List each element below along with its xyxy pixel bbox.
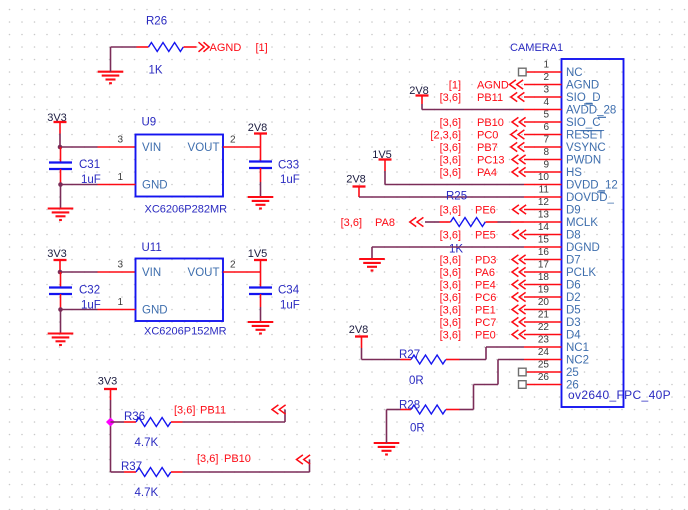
port PC6 pin19 (440, 292, 526, 304)
svg-text:1: 1 (117, 297, 123, 308)
wire (460, 360, 525, 410)
svg-text:AGND: AGND (566, 80, 599, 92)
svg-text:2V8: 2V8 (349, 324, 369, 336)
wire (110, 400, 112, 472)
wire (60, 271, 98, 273)
node junction (58, 270, 63, 275)
svg-text:3: 3 (117, 260, 123, 271)
pin 9 HS (524, 160, 582, 179)
pin 3 U9 (98, 135, 136, 148)
svg-text:D8: D8 (566, 230, 581, 242)
port AGND pin2 (449, 80, 523, 92)
label U9 designator (142, 117, 157, 129)
port PC0 pin6 (430, 130, 524, 142)
wire (460, 347, 525, 360)
resistor R36 (124, 418, 183, 427)
label R26 value 1K (149, 65, 163, 77)
svg-text:11: 11 (539, 185, 550, 196)
svg-text:PC0: PC0 (477, 130, 498, 142)
svg-text:PD3: PD3 (475, 255, 496, 267)
svg-text:[3,6]: [3,6] (197, 453, 218, 465)
svg-text:24: 24 (538, 347, 550, 358)
pin 22 D4 (524, 322, 581, 341)
label C32 value 1uF (81, 300, 101, 312)
port PB11 (174, 405, 286, 417)
pin 23 NC1 (524, 335, 589, 354)
svg-text:1V5: 1V5 (248, 248, 268, 260)
port PC7 pin21 (440, 317, 526, 329)
svg-text:17: 17 (538, 260, 550, 271)
svg-text:U9: U9 (142, 117, 157, 129)
svg-text:[3,6]: [3,6] (440, 155, 461, 167)
port PE1 pin20 (440, 305, 526, 317)
svg-text:[3,6]: [3,6] (440, 267, 461, 279)
op-amp U11 body (136, 259, 224, 322)
svg-text:12: 12 (538, 197, 550, 208)
svg-text:R26: R26 (146, 16, 167, 28)
pin 1 U9 (98, 172, 136, 185)
port AGND (199, 42, 268, 54)
svg-text:R27: R27 (399, 349, 420, 361)
wire (183, 410, 286, 423)
svg-text:PB10: PB10 (477, 117, 504, 129)
label C31 designator (79, 159, 100, 171)
svg-text:PA8: PA8 (375, 217, 395, 229)
pin 19 D2 (524, 285, 581, 304)
pin 12 D9 (524, 197, 581, 216)
wire (385, 171, 524, 185)
port PA4 pin9 (440, 167, 526, 179)
capacitor C32 (49, 272, 72, 310)
svg-text:C33: C33 (278, 160, 299, 172)
svg-text:VIN: VIN (142, 267, 161, 279)
svg-text:R25: R25 (446, 191, 467, 203)
pin 2 U9 (223, 135, 261, 148)
port PE4 pin18 (440, 280, 526, 292)
svg-text:10: 10 (538, 172, 550, 183)
svg-text:PC7: PC7 (475, 317, 496, 329)
power port 3V3 (47, 112, 67, 134)
resistor R27 (401, 355, 460, 364)
svg-text:PB11: PB11 (200, 405, 226, 417)
svg-text:19: 19 (538, 285, 550, 296)
svg-text:PWDN: PWDN (566, 155, 601, 167)
pin 3 U11 (98, 260, 136, 273)
wire (59, 134, 61, 148)
wire (362, 348, 401, 360)
svg-text:D2: D2 (566, 292, 581, 304)
pin 24 NC2 (524, 347, 589, 366)
svg-text:NC: NC (566, 67, 583, 79)
wire (422, 104, 524, 110)
no-connect square pin 25 (519, 368, 527, 376)
pin 1 NC (524, 60, 583, 79)
label R25 designator (446, 191, 467, 203)
pin 18 D6 (524, 272, 581, 291)
pin 5 SIO_C (524, 110, 601, 129)
svg-text:[3,6]: [3,6] (440, 292, 461, 304)
svg-text:26: 26 (566, 380, 579, 392)
label part ov2640_FPC_40P (568, 388, 671, 402)
node junction (58, 182, 63, 187)
svg-text:4.7K: 4.7K (135, 437, 159, 449)
ground (248, 322, 274, 334)
connector CAMERA1 body (562, 59, 624, 407)
ground (48, 334, 74, 346)
svg-text:[3,6]: [3,6] (440, 205, 461, 217)
wire (111, 421, 125, 423)
wire (372, 247, 524, 259)
label CAMERA1 designator (510, 42, 563, 54)
svg-text:3: 3 (543, 85, 549, 96)
svg-text:14: 14 (538, 222, 550, 233)
pin 20 D5 (524, 297, 581, 316)
svg-text:C31: C31 (79, 159, 100, 171)
svg-text:HS: HS (566, 167, 582, 179)
svg-text:XC6206P282MR: XC6206P282MR (145, 204, 228, 216)
svg-text:PA4: PA4 (477, 167, 497, 179)
svg-text:D6: D6 (566, 280, 581, 292)
svg-text:R37: R37 (121, 461, 142, 473)
svg-text:ov2640_FPC_40P: ov2640_FPC_40P (568, 388, 671, 402)
svg-text:DGND: DGND (566, 242, 600, 254)
svg-text:VOUT: VOUT (188, 142, 220, 154)
no-connect square pin 1 (519, 68, 527, 76)
wire (111, 47, 137, 72)
wire (183, 460, 310, 473)
svg-text:9: 9 (543, 160, 549, 171)
wire (61, 309, 98, 311)
ground (248, 197, 274, 209)
svg-text:XC6206P152MR: XC6206P152MR (144, 326, 227, 338)
ground (359, 259, 385, 271)
pin 17 PCLK (524, 260, 596, 279)
svg-text:1K: 1K (149, 65, 163, 77)
svg-text:[3,6]: [3,6] (440, 117, 461, 129)
svg-text:3V3: 3V3 (47, 248, 67, 260)
svg-text:R36: R36 (124, 411, 145, 423)
node junction (manual) (106, 417, 115, 426)
pin 6 RESET (524, 122, 604, 141)
ground (98, 72, 124, 84)
svg-text:2: 2 (543, 72, 549, 83)
svg-text:VIN: VIN (142, 142, 161, 154)
svg-text:15: 15 (538, 235, 550, 246)
node junction (58, 145, 63, 150)
svg-text:PE6: PE6 (475, 205, 496, 217)
svg-text:AGND: AGND (210, 42, 242, 54)
port PB7 pin7 (440, 142, 525, 154)
pin name overbar AVDD (584, 103, 593, 105)
svg-text:1uF: 1uF (280, 174, 300, 186)
pin name GND (142, 305, 168, 317)
svg-text:GND: GND (142, 305, 168, 317)
pin 1 U11 (98, 297, 136, 310)
wire (498, 221, 525, 223)
pin 2 AGND (524, 72, 599, 91)
pin 3 SIO_D (524, 85, 601, 104)
label C33 value 1uF (280, 174, 300, 186)
svg-text:2V8: 2V8 (248, 122, 268, 134)
svg-text:SIO_C: SIO_C (566, 117, 601, 129)
pin 4 AVDD_28 (524, 97, 616, 116)
svg-text:C32: C32 (79, 285, 100, 297)
svg-text:[2,3,6]: [2,3,6] (430, 130, 461, 142)
svg-text:1: 1 (543, 60, 549, 71)
pin 7 VSYNC (524, 135, 606, 154)
port PB11 pin3 (440, 92, 525, 104)
svg-text:R28: R28 (399, 400, 420, 412)
svg-text:2V8: 2V8 (346, 174, 366, 186)
label U9 part XC6206P282MR (145, 204, 228, 216)
pin 8 PWDN (524, 147, 601, 166)
svg-text:PE0: PE0 (475, 330, 496, 342)
power port 3V3 (98, 376, 118, 401)
port PC13 pin8 (440, 155, 526, 167)
svg-text:PA6: PA6 (475, 267, 495, 279)
label C32 designator (79, 285, 100, 297)
svg-text:D5: D5 (566, 305, 581, 317)
power port 3V3 (47, 248, 67, 272)
wire (60, 185, 62, 209)
pin 2 U11 (223, 260, 261, 273)
label R27 designator (399, 349, 420, 361)
wire (425, 221, 440, 223)
svg-text:2: 2 (230, 260, 236, 271)
wire (61, 184, 98, 186)
capacitor C33 (249, 147, 272, 182)
pin name VOUT (188, 142, 220, 154)
svg-text:PE5: PE5 (475, 230, 496, 242)
ground (374, 443, 400, 455)
label R36 designator (124, 411, 145, 423)
svg-text:21: 21 (538, 310, 550, 321)
svg-text:[3,6]: [3,6] (440, 255, 461, 267)
svg-text:PB10: PB10 (224, 453, 251, 465)
svg-text:5: 5 (543, 110, 549, 121)
no-connect square pin 26 (519, 381, 527, 389)
svg-text:18: 18 (538, 272, 550, 283)
svg-text:[1]: [1] (256, 42, 268, 54)
svg-text:D4: D4 (566, 330, 581, 342)
pin 26 26 (524, 372, 579, 391)
svg-text:[3,6]: [3,6] (440, 92, 461, 104)
svg-text:13: 13 (538, 210, 550, 221)
svg-text:D7: D7 (566, 255, 581, 267)
capacitor C34 (249, 272, 272, 307)
svg-text:[3,6]: [3,6] (440, 305, 461, 317)
svg-text:25: 25 (566, 367, 579, 379)
pin 14 D8 (524, 222, 581, 241)
label R36 value 4.7K (135, 437, 159, 449)
pin name VOUT (188, 267, 220, 279)
port PD3 pin16 (440, 255, 526, 267)
pin name overbar DOVDD (597, 191, 605, 193)
svg-text:PC6: PC6 (475, 292, 496, 304)
label R25 value 1K (449, 244, 463, 256)
svg-text:[3,6]: [3,6] (440, 330, 461, 342)
svg-text:NC1: NC1 (566, 342, 589, 354)
svg-text:22: 22 (538, 322, 550, 333)
wire (359, 196, 524, 198)
label C34 value 1uF (280, 300, 300, 312)
svg-text:VOUT: VOUT (188, 267, 220, 279)
svg-text:[3,6]: [3,6] (440, 142, 461, 154)
svg-text:DOVDD_: DOVDD_ (566, 192, 615, 204)
svg-text:[3,6]: [3,6] (174, 405, 195, 417)
op-amp U9 body (136, 135, 224, 197)
svg-text:U11: U11 (142, 242, 162, 254)
svg-text:2: 2 (230, 135, 236, 146)
label U11 designator (142, 242, 162, 254)
svg-text:D3: D3 (566, 317, 581, 329)
svg-text:PCLK: PCLK (566, 267, 596, 279)
pin name VIN (142, 267, 161, 279)
svg-text:26: 26 (538, 372, 550, 383)
svg-text:4: 4 (543, 97, 549, 108)
resistor R37 (111, 468, 183, 477)
wire (60, 146, 98, 148)
node junction (58, 307, 63, 312)
label U11 part XC6206P152MR (144, 326, 227, 338)
pin 16 D7 (524, 247, 581, 266)
pin name overbar SIO_C (598, 116, 606, 118)
svg-text:D9: D9 (566, 205, 581, 217)
svg-text:C34: C34 (278, 285, 300, 297)
power port 1V5 (372, 149, 392, 171)
svg-text:PE1: PE1 (475, 305, 496, 317)
pin name VIN (142, 142, 161, 154)
svg-text:3V3: 3V3 (98, 376, 118, 388)
svg-text:[3,6]: [3,6] (341, 217, 362, 229)
svg-text:[3,6]: [3,6] (440, 230, 461, 242)
wire (387, 410, 401, 444)
port PA6 pin17 (440, 267, 526, 279)
svg-text:20: 20 (538, 297, 550, 308)
pin 15 DGND (524, 235, 600, 254)
pin name overbar RESET (581, 130, 603, 132)
svg-text:PB7: PB7 (477, 142, 498, 154)
svg-text:0R: 0R (409, 375, 424, 387)
svg-text:AVDD_28: AVDD_28 (566, 105, 616, 117)
svg-text:8: 8 (543, 147, 549, 158)
svg-text:DVDD_12: DVDD_12 (566, 180, 618, 192)
pin 13 MCLK (524, 210, 598, 229)
svg-text:SIO_D: SIO_D (566, 92, 601, 104)
capacitor C31 (49, 147, 72, 185)
svg-text:[3,6]: [3,6] (440, 317, 461, 329)
port PE6 pin12 (440, 205, 527, 217)
svg-text:6: 6 (543, 122, 549, 133)
pin 21 D3 (524, 310, 581, 329)
ground (48, 209, 74, 221)
resistor R1 (R26) (137, 43, 197, 52)
svg-text:[3,6]: [3,6] (440, 167, 461, 179)
svg-text:16: 16 (538, 247, 550, 258)
svg-text:23: 23 (538, 335, 550, 346)
pin 11 DOVDD_ (524, 185, 615, 204)
svg-text:0R: 0R (410, 423, 425, 435)
label R27 value 0R (409, 375, 424, 387)
svg-text:1uF: 1uF (280, 300, 300, 312)
pin 25 25 (524, 360, 579, 379)
resistor R28 (401, 405, 460, 414)
svg-text:AGND: AGND (477, 80, 509, 92)
wire (60, 310, 62, 334)
svg-text:CAMERA1: CAMERA1 (510, 42, 563, 54)
svg-text:1K: 1K (449, 244, 463, 256)
svg-text:[3,6]: [3,6] (440, 280, 461, 292)
svg-text:NC2: NC2 (566, 355, 589, 367)
svg-text:GND: GND (142, 180, 168, 192)
svg-text:25: 25 (538, 360, 550, 371)
wire (260, 182, 262, 197)
svg-text:PB11: PB11 (477, 92, 503, 104)
label R37 value 4.7K (135, 487, 159, 499)
svg-text:7: 7 (543, 135, 549, 146)
label R28 designator (399, 400, 420, 412)
power port 2V8 (349, 324, 369, 348)
power port 2V8 (248, 122, 268, 147)
wire (260, 307, 262, 322)
label R26 designator (146, 16, 167, 28)
label R37 designator (121, 461, 142, 473)
svg-text:[1]: [1] (449, 80, 461, 92)
port PA8 (341, 217, 424, 229)
port PB10 pin5 (440, 117, 526, 129)
port PE0 pin22 (440, 330, 526, 342)
label C34 designator (278, 285, 300, 297)
svg-text:1: 1 (117, 172, 123, 183)
resistor R25 (440, 218, 498, 227)
svg-text:PE4: PE4 (475, 280, 496, 292)
power port 1V5 (248, 248, 268, 272)
svg-text:4.7K: 4.7K (135, 487, 159, 499)
label C31 value 1uF (81, 174, 101, 186)
svg-text:RESET: RESET (566, 130, 604, 142)
svg-text:MCLK: MCLK (566, 217, 598, 229)
label R28 value 0R (410, 423, 425, 435)
svg-text:3: 3 (117, 135, 123, 146)
pin name GND (142, 180, 168, 192)
power port 2V8 (409, 85, 429, 104)
pin 10 DVDD_12 (524, 172, 618, 191)
port PB10 (197, 453, 310, 465)
svg-text:PC13: PC13 (477, 155, 505, 167)
svg-text:VSYNC: VSYNC (566, 142, 606, 154)
label C33 designator (278, 160, 299, 172)
port PE5 pin14 (440, 230, 527, 242)
power port 2V8 (346, 174, 366, 198)
